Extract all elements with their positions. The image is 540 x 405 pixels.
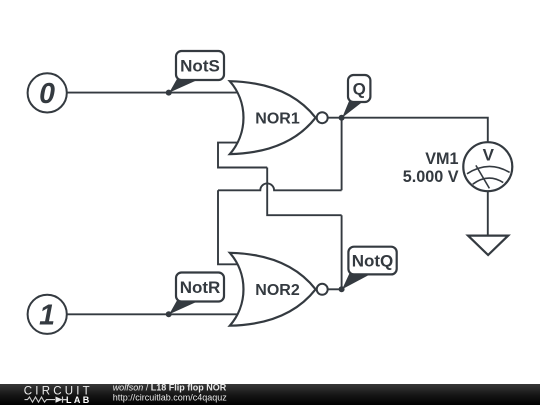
wire NOR2 output to NotQ node bbox=[328, 288, 342, 290]
node NotS junction bbox=[166, 90, 172, 96]
footer title text bbox=[113, 383, 228, 403]
svg-text:NOR1: NOR1 bbox=[255, 111, 300, 128]
NOR gate NOR1 bbox=[230, 81, 328, 154]
svg-text:http://circuitlab.com/c4qaquz: http://circuitlab.com/c4qaquz bbox=[113, 392, 228, 402]
net flag NotS bbox=[169, 51, 224, 93]
svg-text:NOR2: NOR2 bbox=[255, 282, 300, 299]
net flag NotR bbox=[169, 273, 224, 315]
wire NotQ feedback vertical rise bbox=[341, 215, 343, 289]
net flag Q bbox=[342, 75, 370, 118]
wire NotQ feedback to NOR1 input B bbox=[218, 143, 267, 168]
wire NotQ feedback middle segment bbox=[267, 168, 341, 216]
node Q junction bbox=[339, 115, 345, 121]
svg-text:NotR: NotR bbox=[180, 278, 221, 297]
svg-text:V: V bbox=[483, 146, 495, 165]
wire hop over NotQ feedback bbox=[218, 190, 241, 264]
svg-text:VM1: VM1 bbox=[425, 150, 458, 168]
wire Q feedback vertical drop bbox=[341, 118, 343, 191]
svg-text:NotQ: NotQ bbox=[352, 252, 394, 271]
wire Q output to voltmeter bbox=[328, 118, 488, 143]
wire voltmeter to ground bbox=[487, 191, 489, 235]
node NotR junction bbox=[166, 311, 172, 317]
NOR gate NOR2 bbox=[230, 253, 328, 326]
wire NotR from pin 1 to NOR2 input B bbox=[67, 313, 241, 315]
svg-text:1: 1 bbox=[39, 299, 55, 331]
wire Q feedback horizontal with hop bbox=[218, 183, 342, 190]
input pin 0 bbox=[28, 73, 67, 112]
wire NotS from pin 0 to NOR1 input A bbox=[67, 92, 241, 94]
svg-text:NotS: NotS bbox=[180, 57, 220, 76]
svg-text:0: 0 bbox=[39, 78, 55, 110]
svg-text:Q: Q bbox=[353, 80, 366, 99]
net flag NotQ bbox=[342, 247, 397, 290]
ground bbox=[468, 236, 508, 255]
node NotQ junction bbox=[339, 286, 345, 292]
CircuitLab logo bbox=[24, 385, 93, 405]
voltmeter VM1 bbox=[463, 142, 512, 191]
svg-text:LAB: LAB bbox=[66, 395, 92, 405]
svg-text:wolfson / L18 Flip flop NOR: wolfson / L18 Flip flop NOR bbox=[113, 383, 227, 393]
input pin 1 bbox=[28, 295, 67, 334]
svg-text:5.000 V: 5.000 V bbox=[403, 168, 459, 186]
value label VM1 5.000 V bbox=[403, 150, 459, 186]
